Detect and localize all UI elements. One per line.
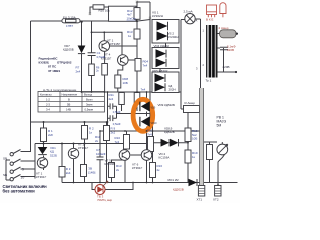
svg-text:14В: 14В: [66, 108, 71, 112]
svg-text:1?В?: 1?В?: [66, 24, 73, 28]
svg-text:9: 9: [22, 168, 24, 172]
svg-text:Тр 1: Тр 1: [206, 79, 212, 83]
svg-text:5В: 5В: [67, 103, 70, 107]
svg-text:2к8: 2к8: [48, 133, 53, 137]
svg-text:2-3: 2-3: [46, 103, 50, 107]
svg-text:7к4: 7к4: [147, 132, 152, 136]
svg-text:КТ361Г: КТ361Г: [78, 146, 89, 150]
svg-text:VD9: VD9: [151, 107, 156, 110]
svg-text:КД202В: КД202В: [173, 188, 184, 192]
svg-text:2к1: 2к1: [111, 130, 116, 134]
svg-text:В К Е: В К Е: [206, 17, 213, 21]
svg-text:3мин: 3мин: [86, 103, 93, 107]
svg-text:10Б: 10Б: [123, 81, 128, 85]
svg-text:220В: 220В: [223, 65, 230, 69]
svg-text:МО1 И2: МО1 И2: [168, 178, 179, 182]
svg-text:2,5 мА: 2,5 мА: [184, 10, 193, 14]
svg-text:10: 10: [21, 176, 25, 180]
svg-text:0,5мин: 0,5мин: [85, 108, 94, 112]
svg-text:R20 10k: R20 10k: [99, 9, 111, 13]
svg-text:VD4 КД202: VD4 КД202: [154, 44, 170, 48]
svg-text:5М: 5М: [217, 124, 222, 128]
svg-text:SB: SB: [3, 157, 7, 161]
svg-text:2к4: 2к4: [109, 97, 114, 101]
svg-text:7к4: 7к4: [143, 63, 148, 67]
svg-text:Выкл: Выкл: [86, 98, 93, 102]
svg-text:КД522Б: КД522Б: [164, 130, 175, 134]
svg-text:ОТРЦ4302: ОТРЦ4302: [57, 61, 72, 65]
svg-text:[14В]: [14В]: [88, 170, 95, 174]
svg-text:0,5мФ: 0,5мФ: [113, 110, 121, 114]
svg-text:7к4: 7к4: [115, 140, 120, 144]
svg-text:10Б: 10Б: [192, 137, 197, 141]
svg-text:0,5мФ: 0,5мФ: [97, 55, 106, 59]
svg-text:70МГц мкр: 70МГц мкр: [97, 198, 112, 202]
svg-text:КС156А: КС156А: [159, 156, 170, 160]
svg-text:А-Тс-1 телеуправление: А-Тс-1 телеуправление: [43, 88, 77, 92]
svg-text:VD5 КД202: VD5 КД202: [152, 69, 168, 73]
svg-text:320В: 320В: [227, 48, 234, 52]
svg-text:SB: SB: [3, 173, 7, 177]
svg-text:10кОм: 10кОм: [127, 17, 136, 21]
svg-text:100мФ: 100мФ: [96, 152, 106, 156]
svg-text:R Амер: R Амер: [185, 101, 196, 105]
svg-text:522Б: 522Б: [50, 153, 57, 157]
svg-text:FU 3,15A: FU 3,15A: [63, 15, 76, 19]
svg-text:КТ315Г: КТ315Г: [110, 42, 121, 46]
svg-text:КУ202Н: КУ202Н: [168, 35, 179, 39]
svg-text:КТ361Г: КТ361Г: [36, 175, 47, 179]
svg-text:ЗТ 1МВЗ: ЗТ 1МВЗ: [48, 69, 60, 73]
svg-text:3-4: 3-4: [46, 108, 50, 112]
svg-text:ХТ2: ХТ2: [213, 198, 219, 202]
svg-text:ХТ1: ХТ1: [197, 198, 203, 202]
svg-text:2к4: 2к4: [76, 69, 81, 73]
svg-text:0,5мФ: 0,5мФ: [113, 122, 121, 126]
svg-text:2к4: 2к4: [66, 171, 71, 175]
svg-text:Контакты: Контакты: [40, 93, 52, 97]
svg-text:2 Амер: 2 Амер: [219, 26, 229, 30]
svg-text:КУ202Н: КУ202Н: [152, 14, 163, 18]
svg-text:КТ361Г: КТ361Г: [132, 166, 143, 170]
svg-text:Напряжение: Напряжение: [62, 93, 78, 97]
svg-text:7к4: 7к4: [141, 88, 146, 92]
svg-text:VD10: VD10: [151, 122, 158, 125]
svg-text:А: А: [196, 19, 198, 23]
svg-text:без автоматики: без автоматики: [3, 189, 36, 194]
svg-text:VD9 КД522Б: VD9 КД522Б: [158, 103, 175, 107]
svg-text:1-2: 1-2: [46, 98, 50, 102]
svg-text:Выход: Выход: [84, 93, 92, 97]
svg-text:В: В: [68, 98, 70, 102]
svg-text:КД105Б: КД105Б: [63, 48, 74, 52]
svg-text:КТ203Б: КТ203Б: [105, 162, 116, 166]
svg-text:202Н: 202Н: [169, 88, 176, 92]
